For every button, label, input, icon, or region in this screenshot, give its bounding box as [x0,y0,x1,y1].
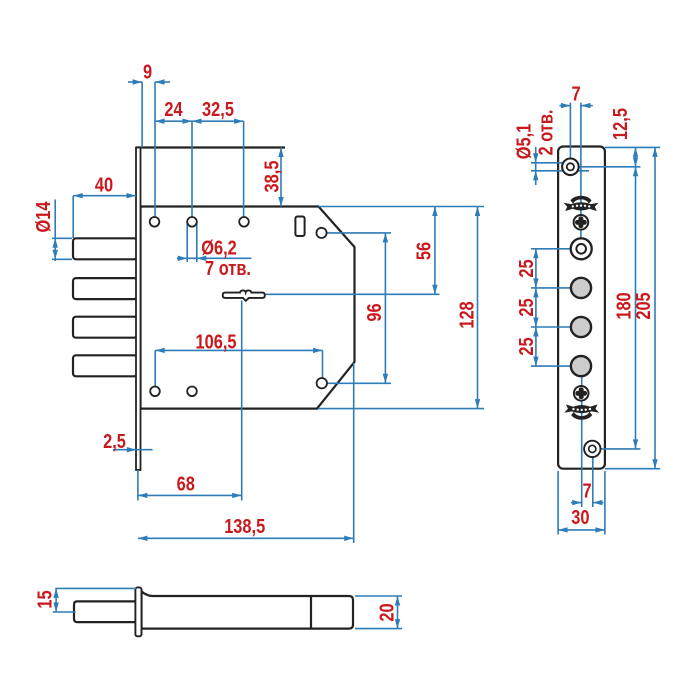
dim 7 bottom (lower screw hole offset) [571,458,604,508]
dim 56 (right side) [319,207,485,295]
svg-text:96: 96 [363,303,386,321]
dim 12,5 and 180 shared line [579,108,661,449]
svg-text:7: 7 [582,479,591,502]
dim Ø14 (bolt diameter) [32,200,72,262]
svg-text:38,5: 38,5 [260,161,283,193]
svg-text:25: 25 [515,337,538,355]
svg-text:32,5: 32,5 [202,98,234,121]
body end cap separation line [310,596,312,629]
dim 32,5 (hole spacing) [192,98,244,217]
svg-text:128: 128 [455,301,478,328]
dim 96 (corner hole spacing) [327,233,391,383]
slot cutout near bevel [295,217,304,237]
dim 38,5 (plate top to body top) [260,148,284,207]
manufacturer logo (top, on faceplate) [564,196,599,211]
dims 25 x3 (bolt hole pitch) [515,249,571,366]
dim 24 (hole spacing) [155,98,192,217]
back plate top edge [136,146,285,148]
mount hole 5 (bottom row) [187,387,197,397]
svg-text:2,5: 2,5 [103,430,126,453]
phillips screw (upper) [574,215,589,230]
svg-text:15: 15 [33,590,56,608]
svg-text:106,5: 106,5 [196,330,237,353]
top screw hole (countersunk) [562,159,579,176]
svg-text:7 отв.: 7 отв. [205,256,251,279]
faceplate strip (edge-on) [136,148,141,471]
svg-text:138,5: 138,5 [224,515,265,538]
svg-text:12,5: 12,5 [609,108,632,140]
bolt 2 [73,278,137,299]
dim 40 (bolt throw) [73,173,136,238]
bolt hole 1 (gray) [571,278,591,298]
keyhole (double-bit key profile) [223,290,265,300]
bolt stem (side view) [74,601,136,622]
bolt 3 [73,317,137,338]
svg-text:40: 40 [95,173,113,196]
corner hole top-right [316,228,326,238]
svg-text:30: 30 [571,506,589,529]
phillips screw (lower) [574,386,589,401]
svg-text:68: 68 [177,472,195,495]
dim 15 (stem offset) [33,588,136,612]
dim 7 top (screw hole offset) [560,82,593,240]
bottom screw hole (countersunk) [584,441,600,457]
lock body (hexagonal case outline) [141,207,355,409]
dim 20 (body thickness) [355,596,402,629]
centerline lower segment (faceplate axis) [581,377,583,507]
svg-text:9: 9 [143,60,152,83]
svg-text:20: 20 [375,603,398,621]
dim Ø5,1 2 отв. (screw holes) [512,110,589,185]
svg-text:25: 25 [515,298,538,316]
bolt 4 (bottom deadbolt pin) [73,355,137,376]
corner hole bottom-right [317,378,327,388]
dim 128 (body height) [265,207,485,409]
mount hole 3 (top row) [239,217,249,227]
svg-text:Ø5,1: Ø5,1 [512,124,535,160]
dim 106,5 (bottom holes span) [155,330,322,386]
dim 9 (first hole offset) [128,60,170,217]
dim 68 (keyhole offset) [138,301,242,501]
dim 138,5 (overall depth) [138,363,354,543]
svg-text:25: 25 [515,259,538,277]
bolt hole 3 (gray) [571,356,591,376]
bolt 1 (top deadbolt pin) [73,238,137,259]
svg-text:205: 205 [632,292,655,319]
cylinder ring hole [571,238,592,259]
svg-text:56: 56 [412,242,435,260]
svg-text:7: 7 [571,82,580,105]
svg-text:Ø14: Ø14 [32,201,55,233]
dim 205 (overall faceplate length) [605,147,660,468]
faceplate front outline [558,147,605,469]
lock body (side view) [142,592,354,629]
manufacturer logo (bottom, rotated) [564,404,599,419]
label Ø6,2 7 отв. (mount holes) with tangent lines [177,222,251,279]
bolt hole 2 (gray) [571,317,591,337]
svg-text:2 отв.: 2 отв. [534,110,557,156]
dim 2,5 (faceplate thickness) [103,430,152,453]
dim 30 (faceplate width) [558,471,605,535]
mount hole 4 (bottom row) [150,387,160,397]
mount hole 2 (top row) [187,217,197,227]
svg-text:24: 24 [164,98,183,121]
mount hole 1 (top row) [150,217,160,227]
faceplate flange (side view) [135,587,141,636]
